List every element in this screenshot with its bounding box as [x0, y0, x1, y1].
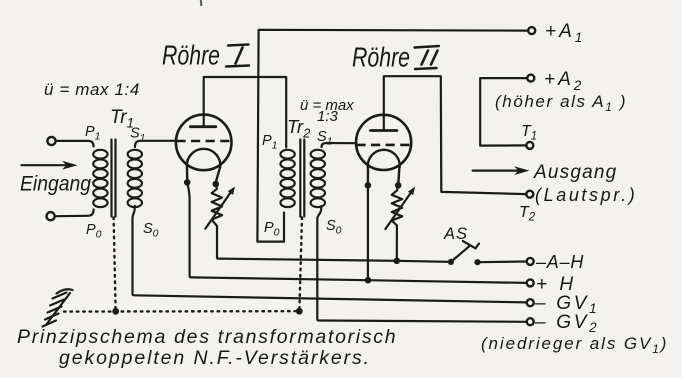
tube V1 grid (dashed)	[176, 140, 231, 143]
wire tube II filament left drop to +H bus	[367, 185, 369, 280]
tube V2 (Roehre II) envelope	[356, 115, 411, 170]
tube V2 filament pin dots	[365, 182, 402, 189]
output arrow (Ausgang)	[473, 166, 530, 175]
wire bracket +A2 to T1	[480, 78, 527, 146]
transformer Tr2 core	[300, 140, 304, 217]
tube V2 grid (dashed)	[356, 144, 410, 147]
terminal Lautsprecher T2	[526, 191, 533, 198]
wire Tr2 S1 to tube II grid	[322, 143, 357, 147]
wire input top terminal to Tr1 P1	[56, 141, 94, 147]
label ue = max 1:3	[300, 97, 354, 125]
junction Tr1 core on ground bus	[112, 308, 119, 315]
wire -A-H bus from rheostat I to switch	[217, 226, 451, 262]
rheostat R2 arrow head	[408, 187, 415, 195]
svg-text:Röhre: Röhre	[162, 40, 220, 71]
wire +A1 line and riser to Tr2 P0 (staple)	[257, 30, 528, 242]
terminal T1	[526, 142, 533, 149]
svg-text:P0: P0	[86, 222, 102, 241]
tube V1 filament	[187, 149, 220, 181]
wire Tr2 S0 down to -GV2 terminal	[317, 206, 526, 322]
svg-text:P1: P1	[85, 124, 101, 143]
label Roehre II	[352, 42, 439, 73]
tube V1 (Roehre I) envelope	[176, 115, 232, 171]
switch AS contacts	[448, 259, 481, 266]
svg-text:T2: T2	[519, 204, 536, 224]
wire tube I filament left to +H bus	[187, 184, 526, 283]
svg-text:(Lautspr.): (Lautspr.)	[535, 185, 637, 205]
svg-text:–A–H: –A–H	[535, 252, 584, 272]
wire stub top edge	[200, 0, 203, 6]
svg-text:AS: AS	[443, 225, 468, 243]
svg-text:Tr2: Tr2	[287, 116, 311, 141]
svg-text:Prinzipschema des transformato: Prinzipschema des transformatorisch	[17, 326, 397, 348]
svg-text:ü = max 1:4: ü = max 1:4	[44, 80, 140, 99]
rheostat R1 (filament rheostat tube I)	[205, 184, 231, 229]
junction tube II rheostat on -A-H bus	[394, 258, 401, 265]
wire tube II anode to Lautsprecher terminal	[384, 76, 527, 194]
wire Tr1 S1 to tube I grid	[135, 141, 176, 147]
svg-text:S0: S0	[326, 218, 342, 237]
svg-text:1:3: 1:3	[317, 108, 339, 125]
junction Tr2 core on ground bus	[296, 308, 303, 315]
svg-text:Eingang: Eingang	[20, 172, 91, 196]
svg-text:Röhre: Röhre	[352, 42, 410, 73]
svg-text:Ausgang: Ausgang	[533, 162, 617, 183]
tube V1 filament pin dots	[184, 179, 219, 187]
tube V2 filament	[368, 150, 400, 182]
transformer Tr2 primary winding	[280, 150, 294, 207]
switch AS lever	[451, 241, 479, 262]
terminal input top	[47, 137, 55, 145]
terminal input bottom	[47, 212, 55, 220]
wire dotted ground bus	[64, 310, 295, 313]
svg-text:T1: T1	[521, 123, 537, 143]
wire dotted Tr1 core to ground line	[114, 218, 116, 310]
label Roehre I	[162, 40, 249, 71]
svg-text:(niedrieger als GV1): (niedrieger als GV1)	[481, 334, 668, 356]
wire tube I anode to Tr2 P1	[204, 77, 287, 148]
transformer Tr1 primary winding	[93, 150, 107, 207]
rheostat R1 arrow head	[228, 187, 235, 195]
svg-text:+A2: +A2	[544, 69, 584, 93]
svg-text:S1: S1	[130, 126, 146, 145]
wire input bottom terminal to Tr1 P0	[55, 210, 94, 217]
svg-text:S0: S0	[143, 221, 159, 240]
svg-text:P0: P0	[264, 220, 280, 239]
terminal -GV2	[527, 318, 534, 325]
wire Tr1 S0 down to -GV1 bus	[133, 206, 527, 302]
rheostat R2 (filament rheostat tube II)	[385, 185, 411, 229]
transformer Tr1 secondary winding	[128, 150, 142, 207]
ground	[43, 289, 73, 326]
wire switch to -A-H terminal	[478, 260, 527, 263]
tube V2 anode plate	[370, 129, 397, 132]
svg-text:P1: P1	[262, 133, 278, 152]
terminal +H	[527, 279, 534, 286]
transformer Tr1 core	[112, 140, 116, 217]
tube V1 anode plate	[190, 125, 215, 128]
svg-text:S1: S1	[317, 129, 333, 148]
junction tube II filament on +H bus	[365, 277, 372, 284]
terminal +A1	[528, 27, 535, 34]
wire rheostat II drop to -A-H bus	[396, 226, 398, 261]
svg-text:gekoppelten N.F.-Verstärkers.: gekoppelten N.F.-Verstärkers.	[59, 347, 371, 369]
svg-text:+A1: +A1	[545, 21, 585, 45]
svg-text:(höher als A1 ): (höher als A1 )	[495, 92, 627, 114]
input arrow (Eingang)	[22, 161, 78, 170]
terminal +A2	[527, 75, 534, 82]
terminal -A-H	[527, 258, 534, 265]
transformer Tr2 secondary winding	[311, 150, 325, 207]
wire dotted Tr2 core to ground line	[299, 218, 302, 310]
svg-text:+ H: + H	[536, 274, 577, 295]
terminal -GV1	[527, 299, 534, 306]
